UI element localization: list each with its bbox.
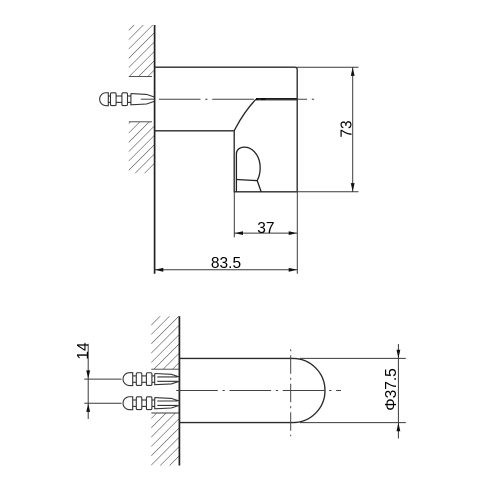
svg-text:Φ37.5: Φ37.5 (383, 368, 400, 411)
svg-text:37: 37 (257, 220, 274, 237)
svg-text:73: 73 (339, 120, 356, 137)
svg-text:83.5: 83.5 (211, 255, 241, 272)
svg-text:14: 14 (75, 342, 92, 360)
